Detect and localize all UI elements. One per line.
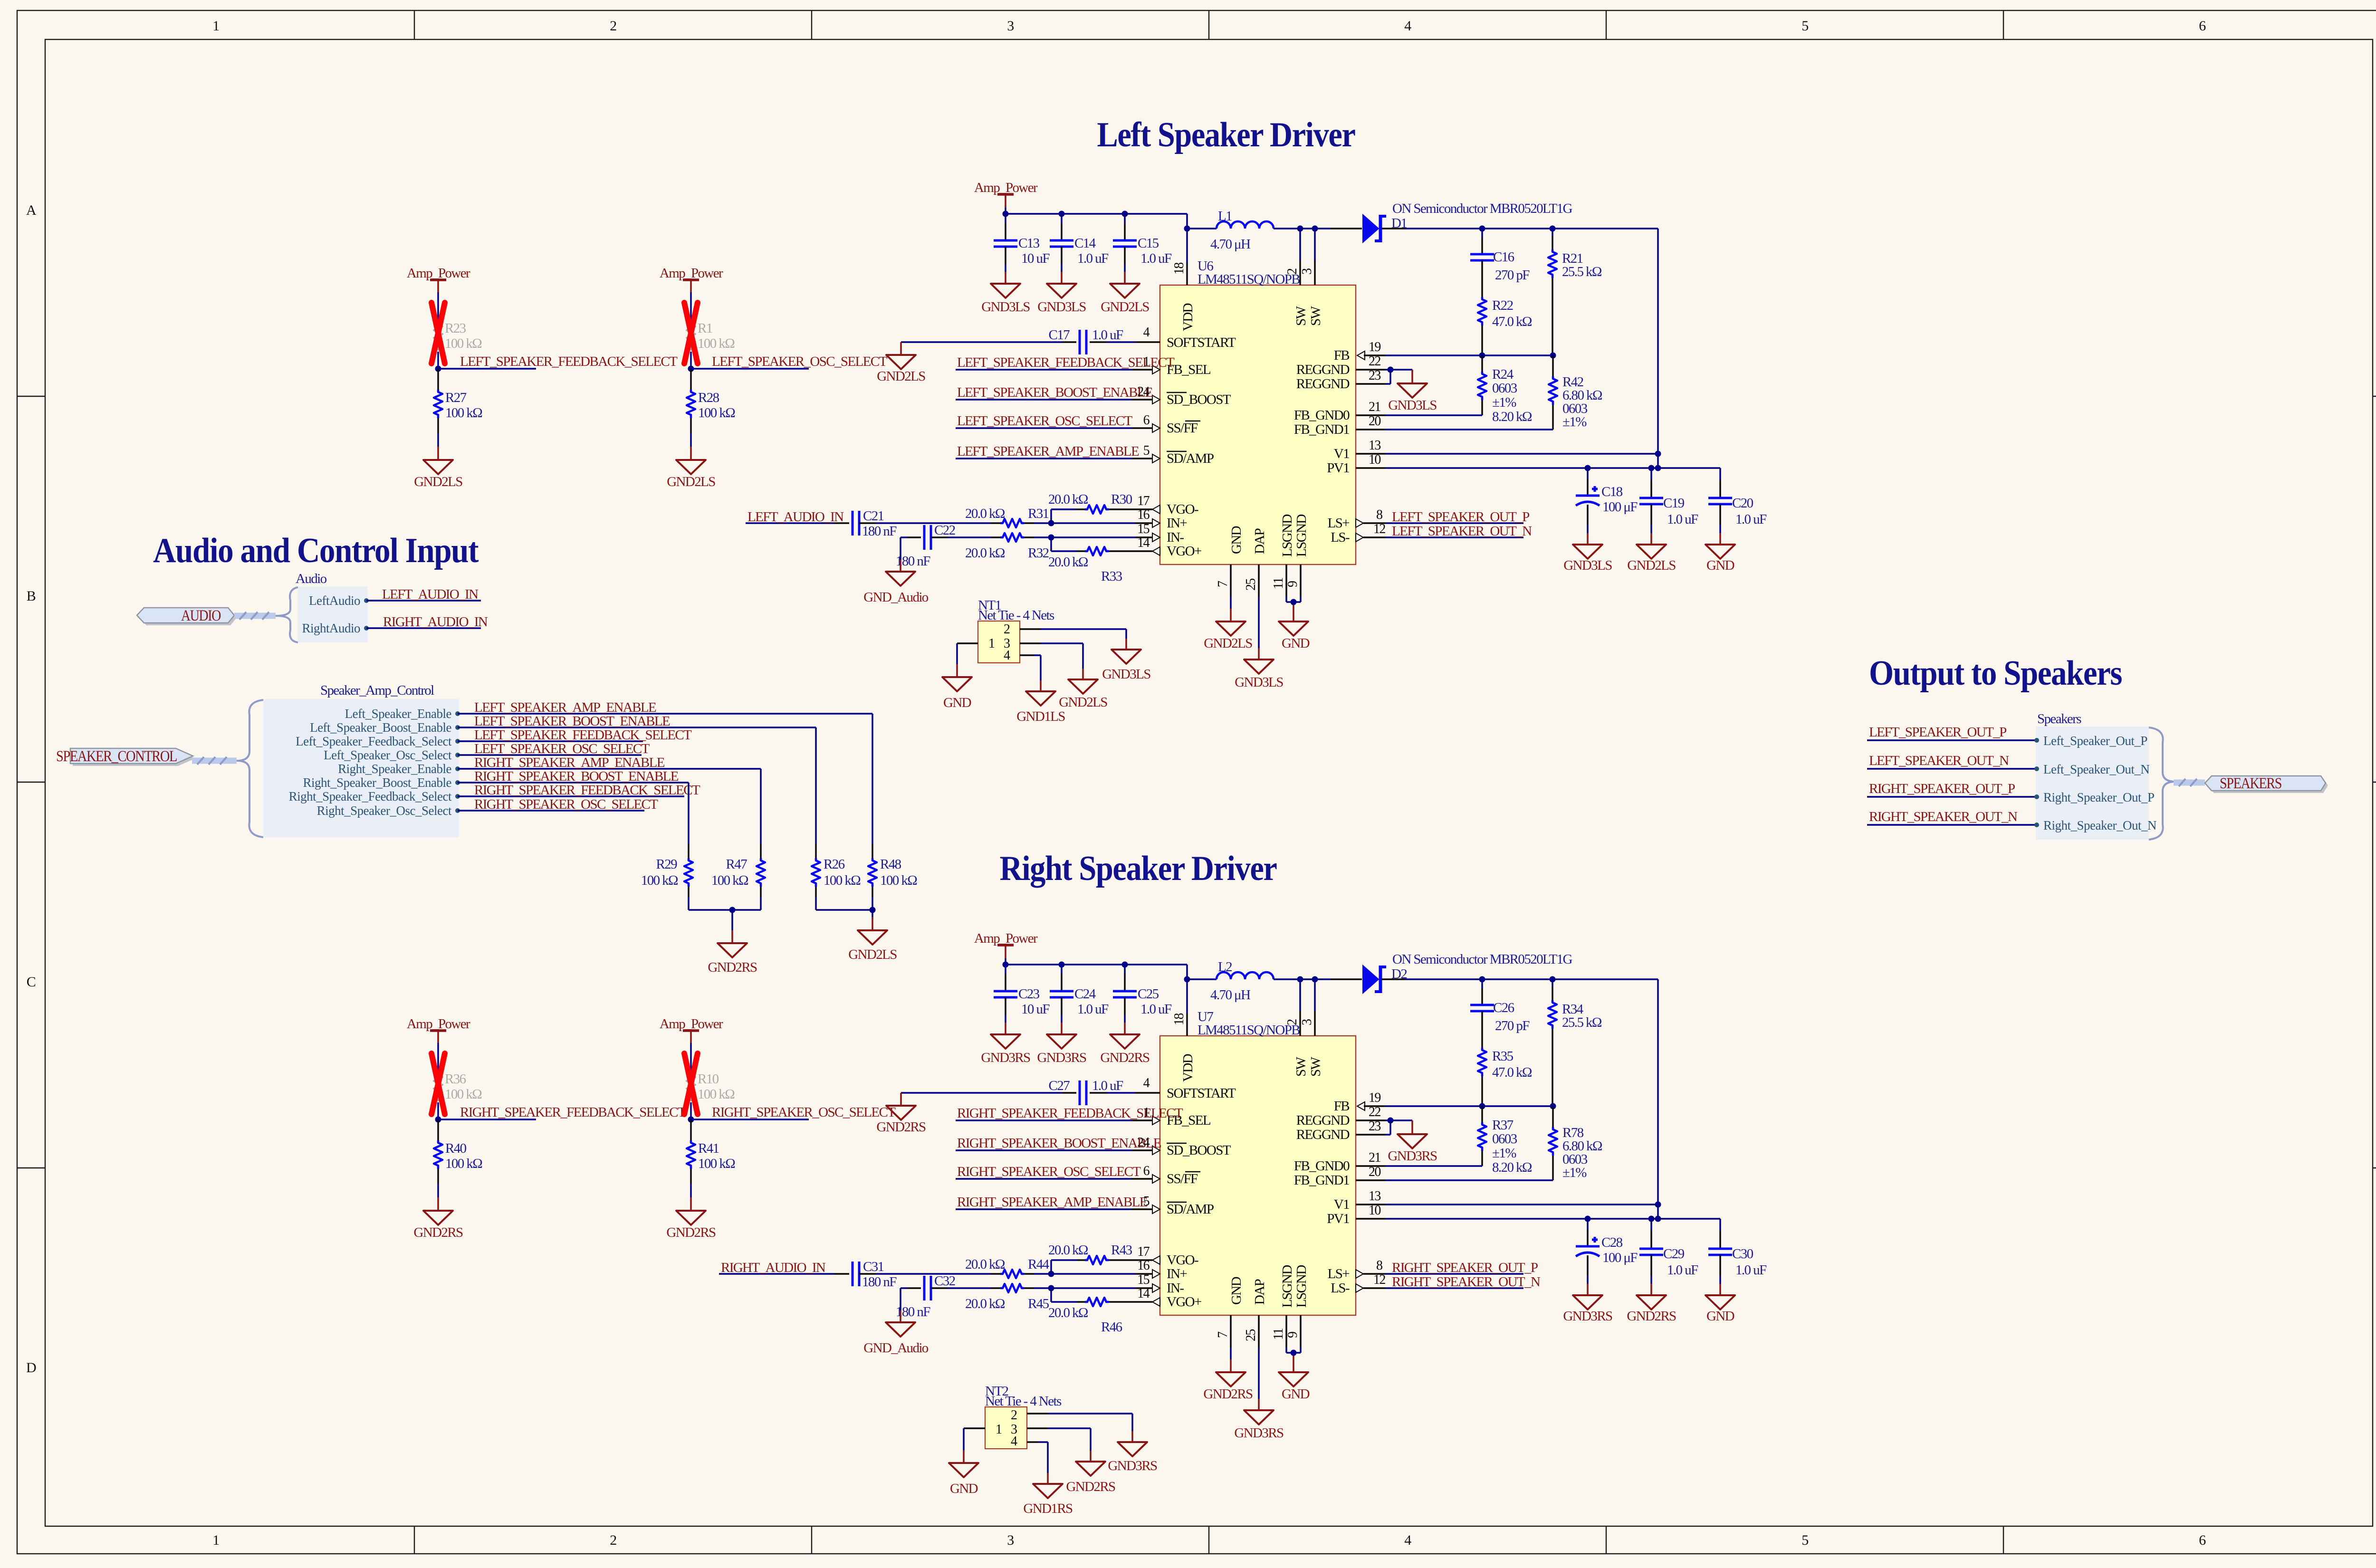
harness member Left_Speaker_Osc_Select xyxy=(324,748,460,762)
harness member Left_Speaker_Enable xyxy=(345,707,460,721)
power symbol Amp_Power at R1 xyxy=(660,266,723,301)
IC U6 LM48511SQ/NOPB xyxy=(1160,258,1356,564)
svg-text:RIGHT_SPEAKER_OUT_P: RIGHT_SPEAKER_OUT_P xyxy=(1869,781,2015,796)
svg-text:RIGHT_SPEAKER_AMP_ENABLE: RIGHT_SPEAKER_AMP_ENABLE xyxy=(957,1195,1148,1210)
svg-text:SW: SW xyxy=(1293,306,1309,326)
resistor R36 100 kOhm DNP xyxy=(434,1052,482,1119)
svg-text:LEFT_AUDIO_IN: LEFT_AUDIO_IN xyxy=(747,509,844,525)
svg-text:RIGHT_SPEAKER_OUT_P: RIGHT_SPEAKER_OUT_P xyxy=(1392,1260,1538,1275)
svg-text:24: 24 xyxy=(1137,384,1150,399)
no-fit cross on R23 xyxy=(431,303,445,363)
svg-text:1.0 uF: 1.0 uF xyxy=(1140,1002,1172,1017)
svg-text:PV1: PV1 xyxy=(1327,1211,1349,1226)
svg-text:2: 2 xyxy=(1285,1019,1300,1025)
title Audio and Control Input xyxy=(153,531,479,570)
pin 2 SW stub xyxy=(1285,979,1300,1036)
svg-text:PV1: PV1 xyxy=(1327,460,1349,476)
svg-text:20.0 kΩ: 20.0 kΩ xyxy=(1048,1243,1088,1258)
svg-text:GND2LS: GND2LS xyxy=(1101,299,1149,315)
svg-text:12: 12 xyxy=(1373,522,1385,536)
svg-text:GND: GND xyxy=(950,1481,978,1496)
power symbol Amp_Power at R10 xyxy=(660,1016,723,1052)
svg-text:19: 19 xyxy=(1369,340,1380,354)
svg-text:LeftAudio: LeftAudio xyxy=(309,593,360,608)
junction rail at C16 xyxy=(1479,976,1485,983)
svg-text:R22: R22 xyxy=(1492,298,1513,313)
ground GND at LSGND xyxy=(1279,1372,1310,1402)
svg-text:270 pF: 270 pF xyxy=(1495,1018,1530,1033)
resistor R29 100 kOhm xyxy=(641,857,693,910)
svg-text:18: 18 xyxy=(1172,1013,1187,1025)
resistor R30 20.0 kOhm xyxy=(1048,492,1136,514)
net label LEFT_SPEAKER_BOOST_ENABLE at harness xyxy=(458,714,816,729)
svg-text:Speaker_Amp_Control: Speaker_Amp_Control xyxy=(320,683,434,698)
svg-text:C14: C14 xyxy=(1074,236,1096,251)
svg-text:RightAudio: RightAudio xyxy=(302,621,360,635)
net label RIGHT_SPEAKER_AMP_ENABLE at pin 5 xyxy=(956,1194,1160,1214)
svg-text:1: 1 xyxy=(212,18,219,34)
net label RIGHT_SPEAKER_OUT_P to speakers harness xyxy=(1867,781,2036,797)
svg-text:R36: R36 xyxy=(445,1071,466,1087)
capacitor C17 1.0 uF softstart xyxy=(901,327,1136,354)
svg-text:SS/FF: SS/FF xyxy=(1167,1171,1198,1186)
svg-text:FB_GND1: FB_GND1 xyxy=(1294,422,1349,437)
net label RIGHT_SPEAKER_OSC_SELECT at pin 6 xyxy=(956,1164,1160,1183)
svg-text:R33: R33 xyxy=(1101,569,1122,584)
wire softstart ground drop xyxy=(900,1093,902,1106)
svg-text:SD/AMP: SD/AMP xyxy=(1167,451,1214,466)
wire power bus xyxy=(1006,214,1187,263)
ground GND at LSGND xyxy=(1279,621,1310,651)
junction V1 rail xyxy=(1655,451,1661,457)
inductor L1 4.70 uH xyxy=(1210,209,1274,252)
svg-text:GND2LS: GND2LS xyxy=(1627,558,1676,573)
svg-text:C15: C15 xyxy=(1138,236,1159,251)
svg-text:LEFT_SPEAKER_OUT_N: LEFT_SPEAKER_OUT_N xyxy=(1869,753,2009,768)
svg-text:B: B xyxy=(27,588,36,604)
junction LSGND xyxy=(1291,599,1297,605)
svg-text:VGO-: VGO- xyxy=(1167,502,1198,517)
pin 2 of NT1 to GND3LS xyxy=(1020,629,1126,650)
svg-text:Left Speaker Driver: Left Speaker Driver xyxy=(1097,115,1356,154)
svg-text:R23: R23 xyxy=(445,321,466,336)
net label RIGHT_SPEAKER_OSC_SELECT xyxy=(691,1105,896,1120)
pin 4 SOFTSTART stub xyxy=(1136,1076,1160,1093)
svg-text:100 kΩ: 100 kΩ xyxy=(824,873,861,888)
svg-text:4: 4 xyxy=(1004,648,1010,663)
resistor R21 25.5 kOhm xyxy=(1548,229,1602,355)
svg-text:12: 12 xyxy=(1373,1272,1385,1287)
svg-text:1.0 uF: 1.0 uF xyxy=(1077,1002,1109,1017)
no-fit cross on R10 xyxy=(684,1053,698,1114)
svg-text:1: 1 xyxy=(988,636,995,651)
svg-text:14: 14 xyxy=(1137,1286,1150,1301)
capacitor C15 xyxy=(1113,214,1172,284)
svg-text:RIGHT_SPEAKER_OSC_SELECT: RIGHT_SPEAKER_OSC_SELECT xyxy=(712,1105,896,1120)
pin 4 SOFTSTART stub xyxy=(1136,325,1160,342)
net label LEFT_SPEAKER_OSC_SELECT at harness xyxy=(458,741,650,756)
svg-text:20.0 kΩ: 20.0 kΩ xyxy=(965,1257,1005,1272)
ground GND2RS under R41 xyxy=(666,1211,716,1240)
svg-text:5: 5 xyxy=(1801,1532,1808,1548)
svg-text:IN-: IN- xyxy=(1167,530,1184,545)
pin 25 DAP xyxy=(1244,1315,1259,1410)
svg-text:Left_Speaker_Out_N: Left_Speaker_Out_N xyxy=(2043,762,2149,776)
svg-text:180 nF: 180 nF xyxy=(862,524,897,539)
svg-text:3: 3 xyxy=(1300,268,1314,275)
svg-text:R48: R48 xyxy=(880,857,901,872)
capacitor C25 xyxy=(1113,965,1172,1034)
svg-text:GND2LS: GND2LS xyxy=(414,474,462,489)
ground GND3RS at REGGND xyxy=(1388,1134,1437,1164)
capacitor C32 180 nF xyxy=(896,1273,991,1319)
svg-text:Amp_Power: Amp_Power xyxy=(407,266,470,281)
ground GND3LS at DAP xyxy=(1235,660,1283,690)
wire VDD to inductor xyxy=(1187,978,1217,980)
wire VGO- link xyxy=(1051,509,1077,523)
resistor R78 6.80 kOhm xyxy=(1549,1106,1602,1180)
svg-text:GND2RS: GND2RS xyxy=(1066,1479,1115,1494)
svg-text:VGO-: VGO- xyxy=(1167,1252,1198,1268)
svg-text:GND2RS: GND2RS xyxy=(708,960,757,975)
svg-text:REGGND: REGGND xyxy=(1296,376,1350,392)
junction R10 node xyxy=(688,1117,694,1123)
svg-text:C: C xyxy=(27,974,36,990)
svg-text:4: 4 xyxy=(1011,1434,1017,1449)
svg-text:6: 6 xyxy=(1143,413,1150,428)
svg-text:FB_GND1: FB_GND1 xyxy=(1294,1173,1349,1188)
ground GND2RS at NT2 pin 3 xyxy=(1066,1462,1115,1494)
svg-text:C27: C27 xyxy=(1048,1078,1070,1093)
wire boost output drop xyxy=(1657,979,1659,1219)
junction R36 node xyxy=(435,1117,441,1123)
svg-text:LS+: LS+ xyxy=(1328,1266,1350,1281)
svg-text:C20: C20 xyxy=(1732,496,1753,511)
svg-text:R1: R1 xyxy=(698,321,712,336)
svg-text:3: 3 xyxy=(1007,18,1014,34)
svg-text:2: 2 xyxy=(610,1532,616,1548)
svg-text:25: 25 xyxy=(1244,1329,1258,1341)
svg-text:LM48511SQ/NOPB: LM48511SQ/NOPB xyxy=(1198,1023,1300,1038)
junction SW pin3 xyxy=(1312,976,1318,983)
resistor R34 25.5 kOhm xyxy=(1548,979,1602,1106)
capacitor C31 180 nF xyxy=(834,1259,991,1290)
pin 15 IN- xyxy=(1051,1272,1160,1292)
svg-text:100 kΩ: 100 kΩ xyxy=(880,873,917,888)
capacitor C28 100 uF polarized xyxy=(1576,1219,1638,1295)
ground GND3LS at NT1 pin 2 xyxy=(1102,650,1150,682)
svg-text:LS-: LS- xyxy=(1331,530,1350,545)
junction IN+ xyxy=(1048,520,1054,526)
svg-text:R46: R46 xyxy=(1101,1319,1122,1335)
svg-text:GND_Audio: GND_Audio xyxy=(863,1340,929,1356)
junction IN- xyxy=(1048,1285,1054,1291)
pin 17 VGO- xyxy=(1136,1244,1160,1264)
junction PV1 C18 xyxy=(1585,465,1591,471)
svg-text:Amp_Power: Amp_Power xyxy=(407,1016,470,1032)
ground GND3LS under C14 xyxy=(1037,284,1086,315)
pin 19 FB xyxy=(1357,340,1385,360)
pin 14 VGO+ xyxy=(1136,1286,1160,1306)
title Output to Speakers xyxy=(1869,654,2122,693)
ground GND at NT2 pin 1 xyxy=(949,1463,978,1496)
harness member Left_Speaker_Out_P xyxy=(2034,734,2147,748)
svg-text:LEFT_SPEAKER_OSC_SELECT: LEFT_SPEAKER_OSC_SELECT xyxy=(474,741,650,756)
svg-text:Amp_Power: Amp_Power xyxy=(660,266,723,281)
svg-text:LEFT_SPEAKER_AMP_ENABLE: LEFT_SPEAKER_AMP_ENABLE xyxy=(957,444,1139,459)
net label RIGHT_SPEAKER_AMP_ENABLE at harness xyxy=(458,755,761,770)
junction VDD to boost rail xyxy=(1184,976,1190,983)
capacitor C22 180 nF xyxy=(896,523,991,569)
net label LEFT_SPEAKER_OSC_SELECT at pin 6 xyxy=(956,413,1160,432)
net label LEFT_SPEAKER_OUT_P to speakers harness xyxy=(1867,725,2036,740)
port SPEAKERS xyxy=(2205,775,2328,793)
svg-text:IN+: IN+ xyxy=(1167,1266,1187,1281)
svg-text:C24: C24 xyxy=(1074,986,1096,1002)
junction FB at R42 xyxy=(1550,353,1556,359)
wire VGO+ link xyxy=(1051,537,1077,551)
svg-text:100 kΩ: 100 kΩ xyxy=(698,1087,735,1102)
pin 23 REGGND xyxy=(1356,1119,1390,1135)
capacitor C14 xyxy=(1050,214,1109,284)
no-fit cross on R36 xyxy=(431,1053,445,1114)
harness member Left_Speaker_Out_N xyxy=(2034,762,2149,776)
pin 21 FB_GND0 xyxy=(1356,400,1482,415)
svg-text:Left_Speaker_Out_P: Left_Speaker_Out_P xyxy=(2043,734,2147,748)
svg-text:R26: R26 xyxy=(824,857,845,872)
svg-text:11: 11 xyxy=(1271,1329,1286,1340)
svg-text:C31: C31 xyxy=(863,1259,884,1274)
svg-text:9: 9 xyxy=(1285,1332,1300,1338)
net label RIGHT_SPEAKER_FEEDBACK_SELECT at pin 1 xyxy=(956,1105,1183,1125)
svg-text:GND: GND xyxy=(1282,1386,1310,1402)
svg-text:GND2RS: GND2RS xyxy=(666,1225,716,1240)
svg-text:GND3LS: GND3LS xyxy=(981,299,1030,315)
svg-text:REGGND: REGGND xyxy=(1296,362,1350,377)
svg-text:20.0 kΩ: 20.0 kΩ xyxy=(1048,1305,1088,1320)
svg-text:SOFTSTART: SOFTSTART xyxy=(1167,1086,1236,1101)
svg-text:1.0 uF: 1.0 uF xyxy=(1092,1078,1123,1093)
svg-text:20.0 kΩ: 20.0 kΩ xyxy=(1048,555,1088,570)
junction SW pin3 xyxy=(1312,226,1318,232)
title Left Speaker Driver xyxy=(1097,115,1356,154)
svg-text:RIGHT_AUDIO_IN: RIGHT_AUDIO_IN xyxy=(383,614,488,630)
resistor R47 100 kOhm xyxy=(711,857,765,910)
pin 4 of NT2 to GND1RS xyxy=(1027,1442,1048,1484)
capacitor C23 xyxy=(994,965,1050,1034)
junction power bus at C15 xyxy=(1122,962,1128,968)
svg-text:23: 23 xyxy=(1369,1119,1380,1134)
svg-text:GND2LS: GND2LS xyxy=(877,369,925,384)
svg-text:SW: SW xyxy=(1308,306,1323,326)
capacitor C16 270 pF xyxy=(1470,229,1530,283)
svg-text:DAP: DAP xyxy=(1252,1279,1267,1305)
harness brace Speakers xyxy=(2149,727,2175,840)
svg-text:±1%: ±1% xyxy=(1492,395,1516,410)
svg-text:15: 15 xyxy=(1137,1272,1149,1287)
net label LEFT_SPEAKER_OUT_N at LS- xyxy=(1356,522,1532,542)
svg-text:GND1LS: GND1LS xyxy=(1016,709,1065,724)
wire power bus xyxy=(1006,965,1187,1013)
svg-text:1.0 uF: 1.0 uF xyxy=(1735,512,1767,527)
svg-text:R27: R27 xyxy=(445,390,467,405)
ground GND1LS at NT1 pin 4 xyxy=(1016,691,1065,724)
svg-text:ON Semiconductor MBR0520LT1G: ON Semiconductor MBR0520LT1G xyxy=(1392,201,1572,216)
ground GND2LS under R27 xyxy=(414,460,462,489)
svg-text:RIGHT_SPEAKER_OUT_N: RIGHT_SPEAKER_OUT_N xyxy=(1392,1274,1541,1290)
ground GND3RS under C24 xyxy=(1037,1034,1086,1065)
svg-text:RIGHT_SPEAKER_OUT_N: RIGHT_SPEAKER_OUT_N xyxy=(1869,809,2018,824)
wire REGGND join xyxy=(1390,370,1412,384)
svg-text:LEFT_SPEAKER_OUT_P: LEFT_SPEAKER_OUT_P xyxy=(1392,509,1529,525)
svg-text:GND2LS: GND2LS xyxy=(1204,636,1252,651)
svg-text:RIGHT_SPEAKER_OSC_SELECT: RIGHT_SPEAKER_OSC_SELECT xyxy=(474,797,658,812)
svg-text:R43: R43 xyxy=(1111,1243,1132,1258)
svg-text:Amp_Power: Amp_Power xyxy=(974,180,1038,195)
resistor R45 20.0 kOhm xyxy=(965,1284,1051,1311)
svg-text:3: 3 xyxy=(1007,1532,1014,1548)
pin 2 of NT2 to GND3RS xyxy=(1027,1414,1132,1442)
svg-text:C21: C21 xyxy=(863,508,884,524)
svg-text:GND_Audio: GND_Audio xyxy=(863,590,929,605)
junction PV1 C19 xyxy=(1648,465,1655,471)
svg-text:Right_Speaker_Boost_Enable: Right_Speaker_Boost_Enable xyxy=(303,775,452,790)
diode D2 ON Semiconductor MBR0520LT1G xyxy=(1363,952,1572,993)
svg-text:4.70 μH: 4.70 μH xyxy=(1210,987,1251,1003)
junction PV1 C19 xyxy=(1648,1216,1655,1222)
svg-text:GND1RS: GND1RS xyxy=(1023,1501,1073,1516)
ground GND_Audio xyxy=(863,1322,929,1356)
svg-text:Net Tie - 4 Nets: Net Tie - 4 Nets xyxy=(985,1394,1062,1409)
svg-text:Audio: Audio xyxy=(296,571,327,586)
pin 20 FB_GND1 xyxy=(1356,414,1553,430)
capacitor C20 1.0 uF xyxy=(1708,468,1767,545)
svg-text:24: 24 xyxy=(1137,1135,1150,1150)
net label RIGHT_SPEAKER_OSC_SELECT at harness xyxy=(458,797,658,812)
svg-text:8.20 kΩ: 8.20 kΩ xyxy=(1492,409,1532,424)
svg-text:6: 6 xyxy=(2199,18,2206,34)
capacitor C29 1.0 uF xyxy=(1639,1219,1698,1295)
svg-text:SW: SW xyxy=(1308,1056,1323,1077)
svg-text:L2: L2 xyxy=(1218,959,1232,975)
junction FB at R42 xyxy=(1550,1103,1556,1109)
svg-text:D: D xyxy=(26,1360,36,1376)
pin 13 V1 xyxy=(1356,1189,1658,1205)
svg-text:Right_Speaker_Enable: Right_Speaker_Enable xyxy=(338,762,451,776)
svg-text:13: 13 xyxy=(1369,438,1380,453)
power symbol Amp_Power at R23 xyxy=(407,266,470,301)
pin 1 of NT1 to GND xyxy=(957,643,978,677)
svg-text:SOFTSTART: SOFTSTART xyxy=(1167,335,1236,350)
svg-text:LEFT_SPEAKER_AMP_ENABLE: LEFT_SPEAKER_AMP_ENABLE xyxy=(474,700,656,715)
svg-text:SD/AMP: SD/AMP xyxy=(1167,1202,1214,1217)
svg-text:FB: FB xyxy=(1334,348,1350,363)
junction PV1 C18 xyxy=(1585,1216,1591,1222)
svg-text:1.0 uF: 1.0 uF xyxy=(1077,251,1109,266)
svg-text:8.20 kΩ: 8.20 kΩ xyxy=(1492,1160,1532,1175)
net tie NT2 xyxy=(985,1384,1062,1449)
ground GND3RS at NT2 pin 2 xyxy=(1108,1442,1157,1473)
svg-text:GND2RS: GND2RS xyxy=(1627,1309,1676,1324)
svg-text:R45: R45 xyxy=(1028,1296,1049,1311)
harness member Right_Speaker_Feedback_Select xyxy=(289,789,460,803)
capacitor C13 xyxy=(994,214,1050,284)
wire left pulldown pair join xyxy=(689,910,761,943)
svg-text:47.0 kΩ: 47.0 kΩ xyxy=(1492,314,1532,329)
svg-text:2: 2 xyxy=(1285,268,1300,275)
svg-text:3: 3 xyxy=(1300,1019,1314,1025)
net label RIGHT_SPEAKER_OUT_P at LS+ xyxy=(1356,1258,1538,1278)
pin 22 REGGND xyxy=(1356,354,1390,370)
resistor R26 100 kOhm xyxy=(812,857,861,910)
svg-text:25: 25 xyxy=(1244,579,1258,591)
junction IN- xyxy=(1048,535,1054,541)
svg-text:R24: R24 xyxy=(1492,367,1514,382)
svg-text:100 kΩ: 100 kΩ xyxy=(445,336,482,351)
resistor R27 100 kOhm xyxy=(434,369,482,460)
harness member Left_Speaker_Boost_Enable xyxy=(310,720,460,735)
svg-text:GND2LS: GND2LS xyxy=(667,474,715,489)
svg-text:RIGHT_SPEAKER_FEEDBACK_SELECT: RIGHT_SPEAKER_FEEDBACK_SELECT xyxy=(474,783,700,798)
svg-text:0603: 0603 xyxy=(1492,1131,1517,1147)
pin 11 LSGND xyxy=(1271,1315,1286,1353)
svg-text:Left_Speaker_Boost_Enable: Left_Speaker_Boost_Enable xyxy=(310,720,451,735)
ground GND3RS at DAP xyxy=(1234,1410,1284,1441)
harness box Speaker_Amp_Control xyxy=(263,683,459,837)
ground GND2LS under R28 xyxy=(667,460,715,489)
svg-text:C23: C23 xyxy=(1018,986,1040,1002)
IC U7 LM48511SQ/NOPB xyxy=(1160,1009,1356,1315)
port AUDIO xyxy=(137,607,237,625)
svg-text:L1: L1 xyxy=(1218,209,1232,224)
harness member LeftAudio xyxy=(309,593,369,608)
svg-text:10: 10 xyxy=(1369,452,1380,467)
net label LEFT_SPEAKER_FEEDBACK_SELECT at harness xyxy=(458,727,692,743)
pin 2 SW stub xyxy=(1285,229,1300,285)
net label RIGHT_SPEAKER_BOOST_ENABLE at pin 24 xyxy=(956,1135,1161,1155)
net label RIGHT_SPEAKER_BOOST_ENABLE at harness xyxy=(458,769,689,784)
harness member RightAudio xyxy=(302,621,369,635)
svg-text:LEFT_SPEAKER_OSC_SELECT: LEFT_SPEAKER_OSC_SELECT xyxy=(957,413,1133,429)
svg-text:22: 22 xyxy=(1369,354,1380,369)
svg-text:AUDIO: AUDIO xyxy=(181,607,221,624)
resistor R28 100 kOhm xyxy=(687,369,735,460)
svg-text:V1: V1 xyxy=(1334,1197,1349,1212)
resistor R41 100 kOhm xyxy=(687,1119,735,1211)
wire VGO- link xyxy=(1051,1260,1077,1274)
wire diode to output rail xyxy=(1382,978,1658,980)
wire Right_Speaker_Enable drop xyxy=(760,769,762,858)
ground GND2LS at pulldowns xyxy=(848,930,897,962)
pin 18 VDD stub xyxy=(1172,1013,1187,1036)
svg-text:100 μF: 100 μF xyxy=(1602,499,1638,515)
svg-text:20.0 kΩ: 20.0 kΩ xyxy=(965,1296,1005,1311)
junction V1 rail xyxy=(1655,1202,1661,1208)
port SPEAKER_CONTROL xyxy=(56,748,195,766)
svg-text:LEFT_SPEAKER_FEEDBACK_SELECT: LEFT_SPEAKER_FEEDBACK_SELECT xyxy=(460,354,678,369)
svg-text:RIGHT_SPEAKER_FEEDBACK_SELECT: RIGHT_SPEAKER_FEEDBACK_SELECT xyxy=(460,1105,686,1120)
pin 7 GND xyxy=(1216,1315,1231,1372)
junction rail at R21 xyxy=(1550,226,1556,232)
resistor R1 100 kOhm DNP xyxy=(687,301,735,369)
svg-text:A: A xyxy=(26,202,37,218)
pin 21 FB_GND0 xyxy=(1356,1150,1482,1166)
svg-text:FB: FB xyxy=(1334,1099,1350,1114)
svg-text:Right_Speaker_Feedback_Select: Right_Speaker_Feedback_Select xyxy=(289,789,452,803)
wire softstart ground drop xyxy=(900,342,902,355)
ground GND2RS under C25 xyxy=(1100,1034,1150,1065)
net label LEFT_SPEAKER_OSC_SELECT xyxy=(691,354,888,369)
